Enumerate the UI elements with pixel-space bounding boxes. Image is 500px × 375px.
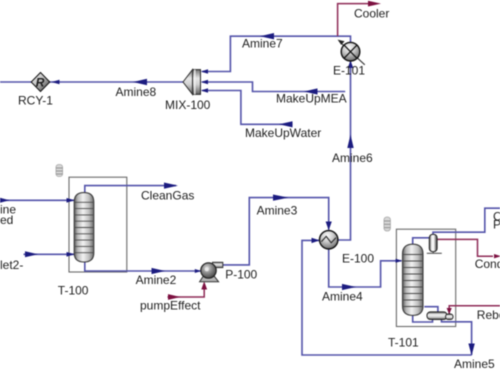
svg-text:MakeUpWater: MakeUpWater: [245, 126, 321, 140]
svg-text:R: R: [36, 75, 45, 89]
svg-text:E-101: E-101: [333, 64, 365, 78]
svg-text:Feed: Feed: [0, 213, 13, 227]
svg-text:CleanGas: CleanGas: [141, 188, 194, 202]
svg-text:T-101: T-101: [388, 335, 419, 349]
svg-text:MIX-100: MIX-100: [165, 98, 211, 112]
svg-text:E-100: E-100: [342, 252, 374, 266]
svg-text:Amine2: Amine2: [136, 273, 177, 287]
svg-text:Cooler: Cooler: [354, 6, 389, 20]
svg-text:CondDuty: CondDuty: [475, 257, 500, 271]
svg-text:Inlet2-: Inlet2-: [0, 258, 23, 272]
svg-text:Amine3: Amine3: [257, 203, 298, 217]
svg-text:Reboiler: Reboiler: [477, 308, 500, 322]
svg-text:P-100: P-100: [225, 268, 257, 282]
svg-text:Amine5: Amine5: [454, 357, 495, 371]
svg-text:T-100: T-100: [58, 284, 89, 298]
svg-text:Amine4: Amine4: [322, 290, 363, 304]
svg-text:pumpEffect: pumpEffect: [140, 298, 201, 312]
svg-text:Amine7: Amine7: [242, 37, 283, 51]
svg-text:Amine6: Amine6: [332, 151, 373, 165]
svg-text:Amine8: Amine8: [116, 85, 157, 99]
svg-text:RCY-1: RCY-1: [18, 93, 53, 107]
svg-text:Product: Product: [493, 218, 500, 232]
svg-text:MakeUpMEA: MakeUpMEA: [276, 92, 347, 106]
